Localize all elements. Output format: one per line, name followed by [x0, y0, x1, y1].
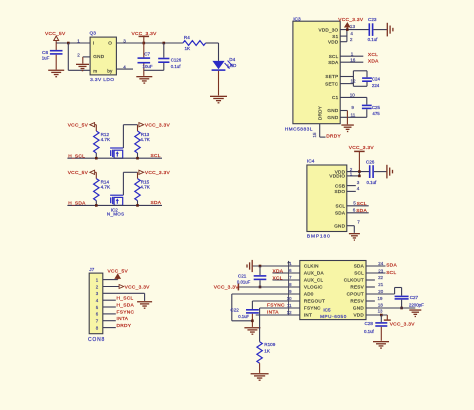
svg-text:C27: C27 — [410, 295, 419, 300]
svg-text:GND: GND — [327, 108, 338, 113]
svg-text:H_SCL: H_SCL — [68, 153, 85, 159]
svg-text:XDA: XDA — [368, 58, 379, 64]
svg-text:6: 6 — [289, 268, 292, 273]
svg-text:SETC: SETC — [325, 81, 339, 86]
svg-text:VCC_3.3V: VCC_3.3V — [338, 17, 364, 23]
svg-text:1: 1 — [351, 51, 354, 56]
svg-text:20: 20 — [378, 289, 383, 294]
svg-text:SDA: SDA — [328, 60, 339, 65]
svg-text:XDA: XDA — [273, 268, 284, 274]
svg-text:R109: R109 — [264, 342, 275, 347]
svg-text:22: 22 — [378, 275, 383, 280]
svg-text:12: 12 — [287, 310, 292, 315]
svg-text:VCC_5V: VCC_5V — [68, 123, 89, 129]
svg-text:0.1uf: 0.1uf — [171, 64, 182, 69]
svg-text:C7: C7 — [144, 52, 150, 57]
svg-text:2: 2 — [350, 37, 353, 42]
svg-text:1K: 1K — [264, 349, 271, 354]
svg-text:7: 7 — [357, 219, 360, 224]
svg-text:1: 1 — [77, 38, 80, 43]
svg-text:VCC_5V: VCC_5V — [68, 170, 89, 176]
svg-text:C26: C26 — [366, 160, 375, 165]
svg-text:4.7K: 4.7K — [101, 137, 111, 142]
svg-text:1: 1 — [350, 171, 353, 176]
svg-text:N_MOS: N_MOS — [107, 211, 125, 216]
svg-text:10: 10 — [350, 92, 356, 97]
svg-text:VCC_3.3V: VCC_3.3V — [214, 285, 240, 291]
svg-text:SDA: SDA — [386, 263, 397, 269]
svg-text:3.3V LDO: 3.3V LDO — [90, 77, 114, 83]
svg-text:VCC_3.3V: VCC_3.3V — [390, 322, 416, 328]
svg-text:GND: GND — [93, 54, 104, 59]
svg-text:0.1uf: 0.1uf — [367, 180, 378, 185]
svg-text:224: 224 — [372, 83, 380, 88]
svg-text:XCL: XCL — [368, 52, 378, 58]
svg-text:SETP: SETP — [325, 74, 338, 79]
svg-text:by: by — [107, 69, 113, 74]
svg-text:AUX_CL: AUX_CL — [304, 278, 324, 283]
svg-text:24: 24 — [378, 261, 383, 266]
svg-text:9: 9 — [289, 289, 292, 294]
svg-text:VDD: VDD — [353, 313, 364, 318]
svg-text:11: 11 — [351, 112, 356, 117]
svg-text:7: 7 — [289, 275, 292, 280]
svg-text:SDA: SDA — [354, 264, 365, 269]
svg-text:IC5: IC5 — [323, 307, 331, 312]
svg-text:SCL: SCL — [386, 270, 396, 276]
svg-text:GND: GND — [327, 115, 338, 120]
svg-text:DRDY: DRDY — [317, 106, 322, 120]
svg-text:VDDIO: VDDIO — [329, 174, 345, 179]
svg-text:INTA: INTA — [117, 316, 129, 322]
svg-text:INTA: INTA — [267, 310, 279, 316]
svg-text:9: 9 — [351, 105, 354, 110]
svg-text:AUX_DA: AUX_DA — [304, 271, 325, 276]
svg-text:GND: GND — [353, 306, 364, 311]
svg-text:H_SDA: H_SDA — [68, 201, 86, 207]
svg-text:IC4: IC4 — [307, 159, 315, 165]
svg-text:0.1uf: 0.1uf — [364, 329, 375, 334]
svg-text:LED: LED — [227, 63, 237, 68]
svg-text:I: I — [93, 41, 95, 46]
svg-text:SCL: SCL — [354, 271, 364, 276]
svg-text:m: m — [93, 68, 97, 73]
svg-text:CLKOUT: CLKOUT — [344, 278, 364, 283]
svg-text:D4: D4 — [229, 57, 235, 62]
svg-text:Q3: Q3 — [90, 31, 97, 37]
svg-text:16: 16 — [350, 57, 356, 62]
svg-text:C1: C1 — [332, 95, 339, 100]
svg-text:HMC5883L: HMC5883L — [285, 127, 313, 133]
svg-text:VCC_3.3V: VCC_3.3V — [125, 284, 151, 290]
svg-text:1uF: 1uF — [42, 56, 50, 61]
svg-text:13: 13 — [350, 24, 356, 29]
svg-text:REGOUT: REGOUT — [304, 299, 325, 304]
svg-text:1K: 1K — [185, 46, 192, 51]
svg-text:18: 18 — [378, 303, 383, 308]
svg-text:SDA: SDA — [151, 200, 162, 206]
svg-text:RESV: RESV — [350, 285, 364, 290]
svg-text:SDA: SDA — [335, 211, 346, 216]
svg-text:INT: INT — [304, 313, 312, 318]
svg-text:0.1uf: 0.1uf — [368, 37, 379, 42]
svg-text:VCC_5V: VCC_5V — [108, 268, 129, 274]
svg-text:O: O — [108, 41, 112, 46]
svg-text:C24: C24 — [372, 77, 381, 82]
svg-text:475: 475 — [372, 111, 380, 116]
svg-text:C23: C23 — [368, 17, 377, 22]
svg-text:3: 3 — [357, 180, 360, 185]
svg-text:C28: C28 — [365, 321, 374, 326]
svg-text:11: 11 — [287, 303, 292, 308]
svg-text:H_SCL: H_SCL — [117, 296, 134, 302]
svg-text:23: 23 — [378, 268, 383, 273]
svg-text:C21: C21 — [238, 274, 247, 279]
svg-text:VDD: VDD — [328, 39, 339, 44]
svg-text:VCC_5V: VCC_5V — [45, 31, 66, 37]
svg-text:AD0: AD0 — [304, 292, 314, 297]
svg-text:SCL: SCL — [357, 201, 367, 207]
svg-text:4: 4 — [357, 186, 360, 191]
svg-text:IC3: IC3 — [293, 16, 301, 22]
svg-text:J7: J7 — [89, 267, 94, 273]
svg-text:4.7K: 4.7K — [140, 137, 150, 142]
svg-text:2: 2 — [77, 52, 80, 57]
svg-text:0.1uF: 0.1uF — [238, 314, 249, 319]
svg-text:13: 13 — [378, 308, 383, 313]
svg-text:4.7K: 4.7K — [101, 185, 111, 190]
svg-text:SCL: SCL — [329, 54, 339, 59]
svg-text:XCL: XCL — [273, 275, 283, 281]
svg-text:DRDY: DRDY — [326, 133, 341, 139]
svg-text:MPU-6050: MPU-6050 — [320, 314, 347, 319]
svg-text:VCC_3.3V: VCC_3.3V — [145, 170, 171, 176]
svg-text:SDO: SDO — [334, 189, 345, 194]
svg-text:19: 19 — [378, 296, 383, 301]
svg-text:CLKIN: CLKIN — [304, 264, 319, 269]
svg-text:C25: C25 — [372, 105, 381, 110]
svg-text:FSYNC: FSYNC — [117, 309, 135, 315]
svg-text:1: 1 — [289, 261, 292, 266]
svg-text:FSYNC: FSYNC — [267, 302, 285, 308]
svg-text:4: 4 — [350, 31, 353, 36]
svg-text:CON8: CON8 — [88, 337, 105, 343]
svg-text:VDD_3O: VDD_3O — [319, 27, 339, 32]
svg-text:BMP180: BMP180 — [307, 234, 331, 240]
svg-text:VCC_3.3V: VCC_3.3V — [349, 145, 375, 151]
svg-text:15: 15 — [312, 132, 317, 137]
svg-text:H_SDA: H_SDA — [117, 302, 135, 308]
svg-text:RESV: RESV — [350, 299, 364, 304]
svg-text:2200pF: 2200pF — [409, 303, 424, 308]
svg-text:SCL: SCL — [336, 204, 346, 209]
svg-text:4.7K: 4.7K — [140, 185, 150, 190]
svg-text:C22: C22 — [230, 308, 239, 313]
svg-text:GND: GND — [334, 223, 345, 228]
svg-text:C126: C126 — [171, 57, 182, 62]
svg-text:VLOGIC: VLOGIC — [304, 285, 323, 290]
svg-text:VCC_3.3V: VCC_3.3V — [145, 123, 171, 129]
svg-text:10: 10 — [287, 296, 292, 301]
svg-text:FSYNC: FSYNC — [304, 306, 321, 311]
svg-text:SCL: SCL — [151, 153, 161, 159]
svg-text:S1: S1 — [332, 34, 338, 39]
svg-text:21: 21 — [378, 282, 383, 287]
svg-text:SDA: SDA — [356, 208, 367, 214]
svg-text:8: 8 — [289, 282, 292, 287]
svg-text:DRDY: DRDY — [117, 323, 132, 329]
svg-text:10uF: 10uF — [143, 64, 153, 69]
svg-text:R4: R4 — [184, 35, 190, 40]
svg-text:CSB: CSB — [335, 183, 345, 188]
svg-text:CPOUT: CPOUT — [347, 292, 364, 297]
